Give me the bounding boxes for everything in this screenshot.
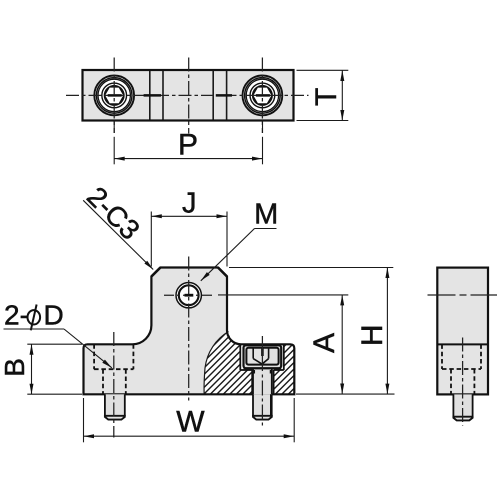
label B [0, 358, 30, 377]
label A [308, 333, 341, 353]
svg-text:A: A [308, 333, 341, 353]
svg-text:H: H [356, 324, 389, 346]
screw shank (in hole) [253, 368, 272, 394]
label 2-C3 + leader [81, 181, 146, 246]
svg-text:T: T [310, 88, 343, 106]
svg-text:M: M [254, 199, 278, 231]
counterbore hole (right, sectioned) white [240, 345, 283, 370]
label T [310, 88, 343, 106]
dimension J [151, 212, 227, 267]
side view body [437, 268, 488, 395]
svg-text:W: W [176, 405, 205, 438]
screw S1 (top view left) [94, 75, 135, 116]
screw S2 (top view right) [242, 75, 283, 116]
right stud (protruding thread) [253, 394, 272, 419]
counterbore walls [240, 344, 283, 394]
front body fill [84, 268, 295, 395]
front body outline [84, 268, 295, 395]
centerline thick dashes (top view) [108, 94, 270, 97]
svg-text:J: J [182, 187, 197, 219]
side shoulder line [437, 343, 488, 345]
dimension A [218, 295, 348, 394]
boss edge lines (top view) [150, 71, 227, 120]
chamfer edges thick [151, 268, 160, 277]
side centerline horizontal [428, 294, 456, 296]
thick dash at hole center [185, 294, 194, 297]
tapped hole M (front boss) [175, 282, 202, 309]
svg-text:2-C3: 2-C3 [81, 181, 146, 246]
dimension B [27, 344, 82, 394]
side hidden counterbore [442, 344, 481, 394]
side stud [453, 394, 472, 420]
dimension W [84, 398, 295, 442]
dimension T [297, 70, 349, 120]
dimension H [229, 268, 395, 395]
svg-text:2-: 2- [4, 300, 29, 331]
left hidden counterbore (dashed) [94, 344, 133, 394]
centerline left hole [113, 332, 115, 438]
centerline horizontal (hole M) [164, 294, 212, 296]
centerline vertical left screw [113, 58, 115, 134]
svg-text:B: B [0, 358, 30, 377]
centerline vertical right screw [261, 58, 263, 134]
svg-text:D: D [44, 300, 64, 331]
break line arc [204, 332, 228, 395]
centerline vertical middle [188, 58, 190, 134]
top view body [83, 70, 294, 121]
centerline vertical (front middle) [188, 257, 190, 401]
centerline right screw [261, 336, 263, 426]
section region (broken-out) white + hatch [204, 332, 294, 395]
dimension P [114, 121, 262, 165]
label H [356, 324, 389, 346]
screw head Q2 (sectioned socket head) [244, 345, 282, 368]
centerline horizontal (top view) [66, 94, 309, 96]
side centerline vertical [462, 338, 464, 426]
svg-text:P: P [178, 129, 198, 162]
left stud (protruding thread) [105, 394, 125, 419]
